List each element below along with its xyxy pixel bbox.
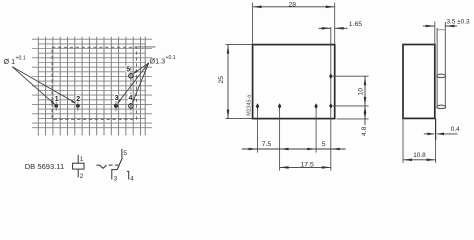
svg-text:+0.1: +0.1 [16, 56, 26, 62]
hole label 4 [128, 94, 133, 102]
dimension 25 top arrow [227, 45, 230, 54]
dimension 10.8 line [403, 159, 436, 161]
svg-text:4: 4 [129, 95, 133, 102]
leader from diam-1.3 label to hole 3 [117, 63, 149, 104]
side lug right edge [444, 22, 446, 109]
dimension 4.8 top arrow [364, 106, 367, 113]
pin 2 marker [278, 103, 281, 109]
svg-text:5: 5 [123, 150, 127, 157]
side lug left edge [436, 28, 438, 109]
dimension 1.65 left arrow [322, 27, 331, 30]
pin 2 extension line [279, 104, 281, 171]
dimension 0.4 left arrow [427, 133, 434, 136]
dimension 28 right extension line [334, 3, 336, 45]
hole label 2 [76, 95, 81, 103]
dimension 10 bottom arrow [364, 97, 367, 106]
upper side lug end ellipse [437, 74, 446, 78]
svg-text:7.5: 7.5 [262, 141, 272, 148]
dimension 1.65 left segment [319, 27, 331, 29]
grid of drilling plan (left view) [32, 37, 152, 136]
dimension 25 line [227, 45, 229, 119]
side view bottom pin [435, 118, 437, 140]
svg-text:3: 3 [114, 175, 118, 182]
pin 4 / side pin extension line [330, 27, 332, 171]
svg-text:2: 2 [80, 173, 84, 180]
actuator dashed link [109, 164, 119, 166]
leader from diam-1 label to hole 1 [12, 67, 55, 105]
actuator zigzag link [96, 165, 106, 168]
dimension 3.5 line left part [423, 25, 435, 27]
svg-text:10.8: 10.8 [413, 152, 426, 159]
hole label 3 [114, 94, 119, 102]
contact blade [117, 158, 122, 170]
hole label 1 [54, 95, 59, 103]
contact 3 fixed contact [112, 170, 118, 180]
lower side pin leader line [332, 105, 369, 107]
hole label 5 [126, 66, 131, 74]
side pin marker (upper) [329, 73, 332, 79]
dimension 5 right arrow [331, 148, 340, 151]
dimension 3.5 left arrow [426, 25, 435, 28]
dimension 28 left extension line [252, 3, 254, 45]
relay body side view outline [403, 45, 435, 119]
svg-text:10: 10 [357, 88, 364, 96]
dimension 1.65 right segment [335, 27, 348, 29]
upper side pin leader line [332, 75, 369, 77]
hole 1 (diam 1) [54, 101, 58, 111]
dimension 17.5 line [280, 166, 331, 168]
svg-text:25: 25 [218, 76, 225, 84]
contact pin 5 lead [121, 149, 123, 158]
leader from diam-1.3 label to hole 5 [133, 63, 149, 74]
dimension 25 bottom arrow [227, 110, 230, 119]
label diameter 1 +0.1 [4, 56, 26, 67]
label diameter 1.3 +0.1 [150, 55, 176, 66]
hole 4 (diam 1.3) [129, 104, 133, 108]
dimension 5 left arrow [307, 148, 316, 151]
svg-text:2: 2 [76, 96, 80, 103]
svg-text:3: 3 [115, 95, 119, 102]
dimension 17.5 left arrow [280, 166, 289, 169]
svg-text:1: 1 [55, 96, 59, 103]
pin 1 marker [256, 103, 259, 109]
coil pin 2 lead [77, 169, 79, 177]
svg-text:17.5: 17.5 [301, 161, 314, 168]
svg-text:DB 5693.11: DB 5693.11 [25, 162, 65, 171]
svg-text:1: 1 [80, 156, 84, 163]
dimension 28 right arrow [326, 6, 335, 9]
leader from diam-1.3 label to hole 4 [132, 63, 149, 104]
svg-text:4.8: 4.8 [361, 126, 368, 136]
svg-text:+0.1: +0.1 [166, 55, 176, 61]
dimension 7.5 left arrow [249, 148, 258, 151]
solid segment extending from outline top right [134, 46, 155, 48]
coil U1 rectangle [73, 163, 84, 169]
dimension 1.65 right arrow [335, 27, 344, 30]
dimension 10.8 left arrow [403, 159, 412, 162]
coil pin 1 lead [77, 155, 79, 163]
dimension 28 line [253, 6, 335, 8]
dashed relay body outline on drilling plan [52, 47, 136, 119]
pin 3 extension line [315, 104, 317, 153]
dimension 10.8 left extension line [402, 118, 404, 162]
dimension 4.8 line [364, 106, 366, 125]
side lug top cap [437, 29, 445, 31]
pin 1 extension line [257, 104, 259, 153]
svg-text:1.65: 1.65 [349, 21, 362, 28]
dimension 0.4 line left part [424, 133, 435, 135]
svg-text:Ø1.3: Ø1.3 [150, 57, 166, 66]
dimension 0.4 line right part [437, 133, 458, 135]
svg-text:M2345 a: M2345 a [247, 95, 253, 116]
svg-text:5: 5 [126, 67, 130, 74]
relay body front view outline [253, 45, 335, 119]
dimension 28 left arrow [253, 6, 262, 9]
dimension 25 bottom extension line [226, 118, 253, 120]
dimension 10.8 right arrow [427, 159, 436, 162]
svg-text:0.4: 0.4 [451, 126, 460, 133]
svg-text:28: 28 [289, 1, 297, 8]
dimension 25 top extension line [226, 44, 253, 46]
dimension 10 top arrow [364, 76, 367, 85]
bottom pin extension to 10.8 dim [435, 140, 437, 163]
dimension line row for 7.5 and 5 [242, 148, 346, 150]
dimension 3.5 right arrow [445, 25, 454, 28]
centerline through holes 4 and 5 [130, 68, 132, 114]
svg-text:Ø 1: Ø 1 [4, 57, 16, 66]
contact pin 4 lead [127, 171, 129, 179]
svg-text:4: 4 [130, 175, 134, 182]
hole 2 (diam 1) [76, 101, 80, 111]
hole 5 (diam 1.3) [129, 74, 133, 78]
dimension 0.4 right arrow [437, 133, 444, 136]
lower side lug end ellipse [437, 105, 446, 109]
dimension 17.5 right arrow [322, 166, 331, 169]
dimension 10 line [364, 76, 366, 106]
dimension 7.5 right arrow [280, 148, 289, 151]
svg-text:5: 5 [322, 141, 326, 148]
body bottom extension line (right) [337, 118, 369, 120]
hole 3 (diam 1.3) [114, 101, 118, 111]
dimension 3.5 extension line (body edge) [434, 22, 436, 45]
dimension 4.8 bottom arrow [364, 112, 367, 119]
dimension 3.5 line right part [445, 25, 457, 27]
leader from diam-1 label to hole 2 [12, 67, 76, 104]
svg-text:3.5 ±0.3: 3.5 ±0.3 [447, 18, 470, 25]
pin 3 marker [314, 103, 317, 109]
pin 4 marker [329, 103, 332, 109]
